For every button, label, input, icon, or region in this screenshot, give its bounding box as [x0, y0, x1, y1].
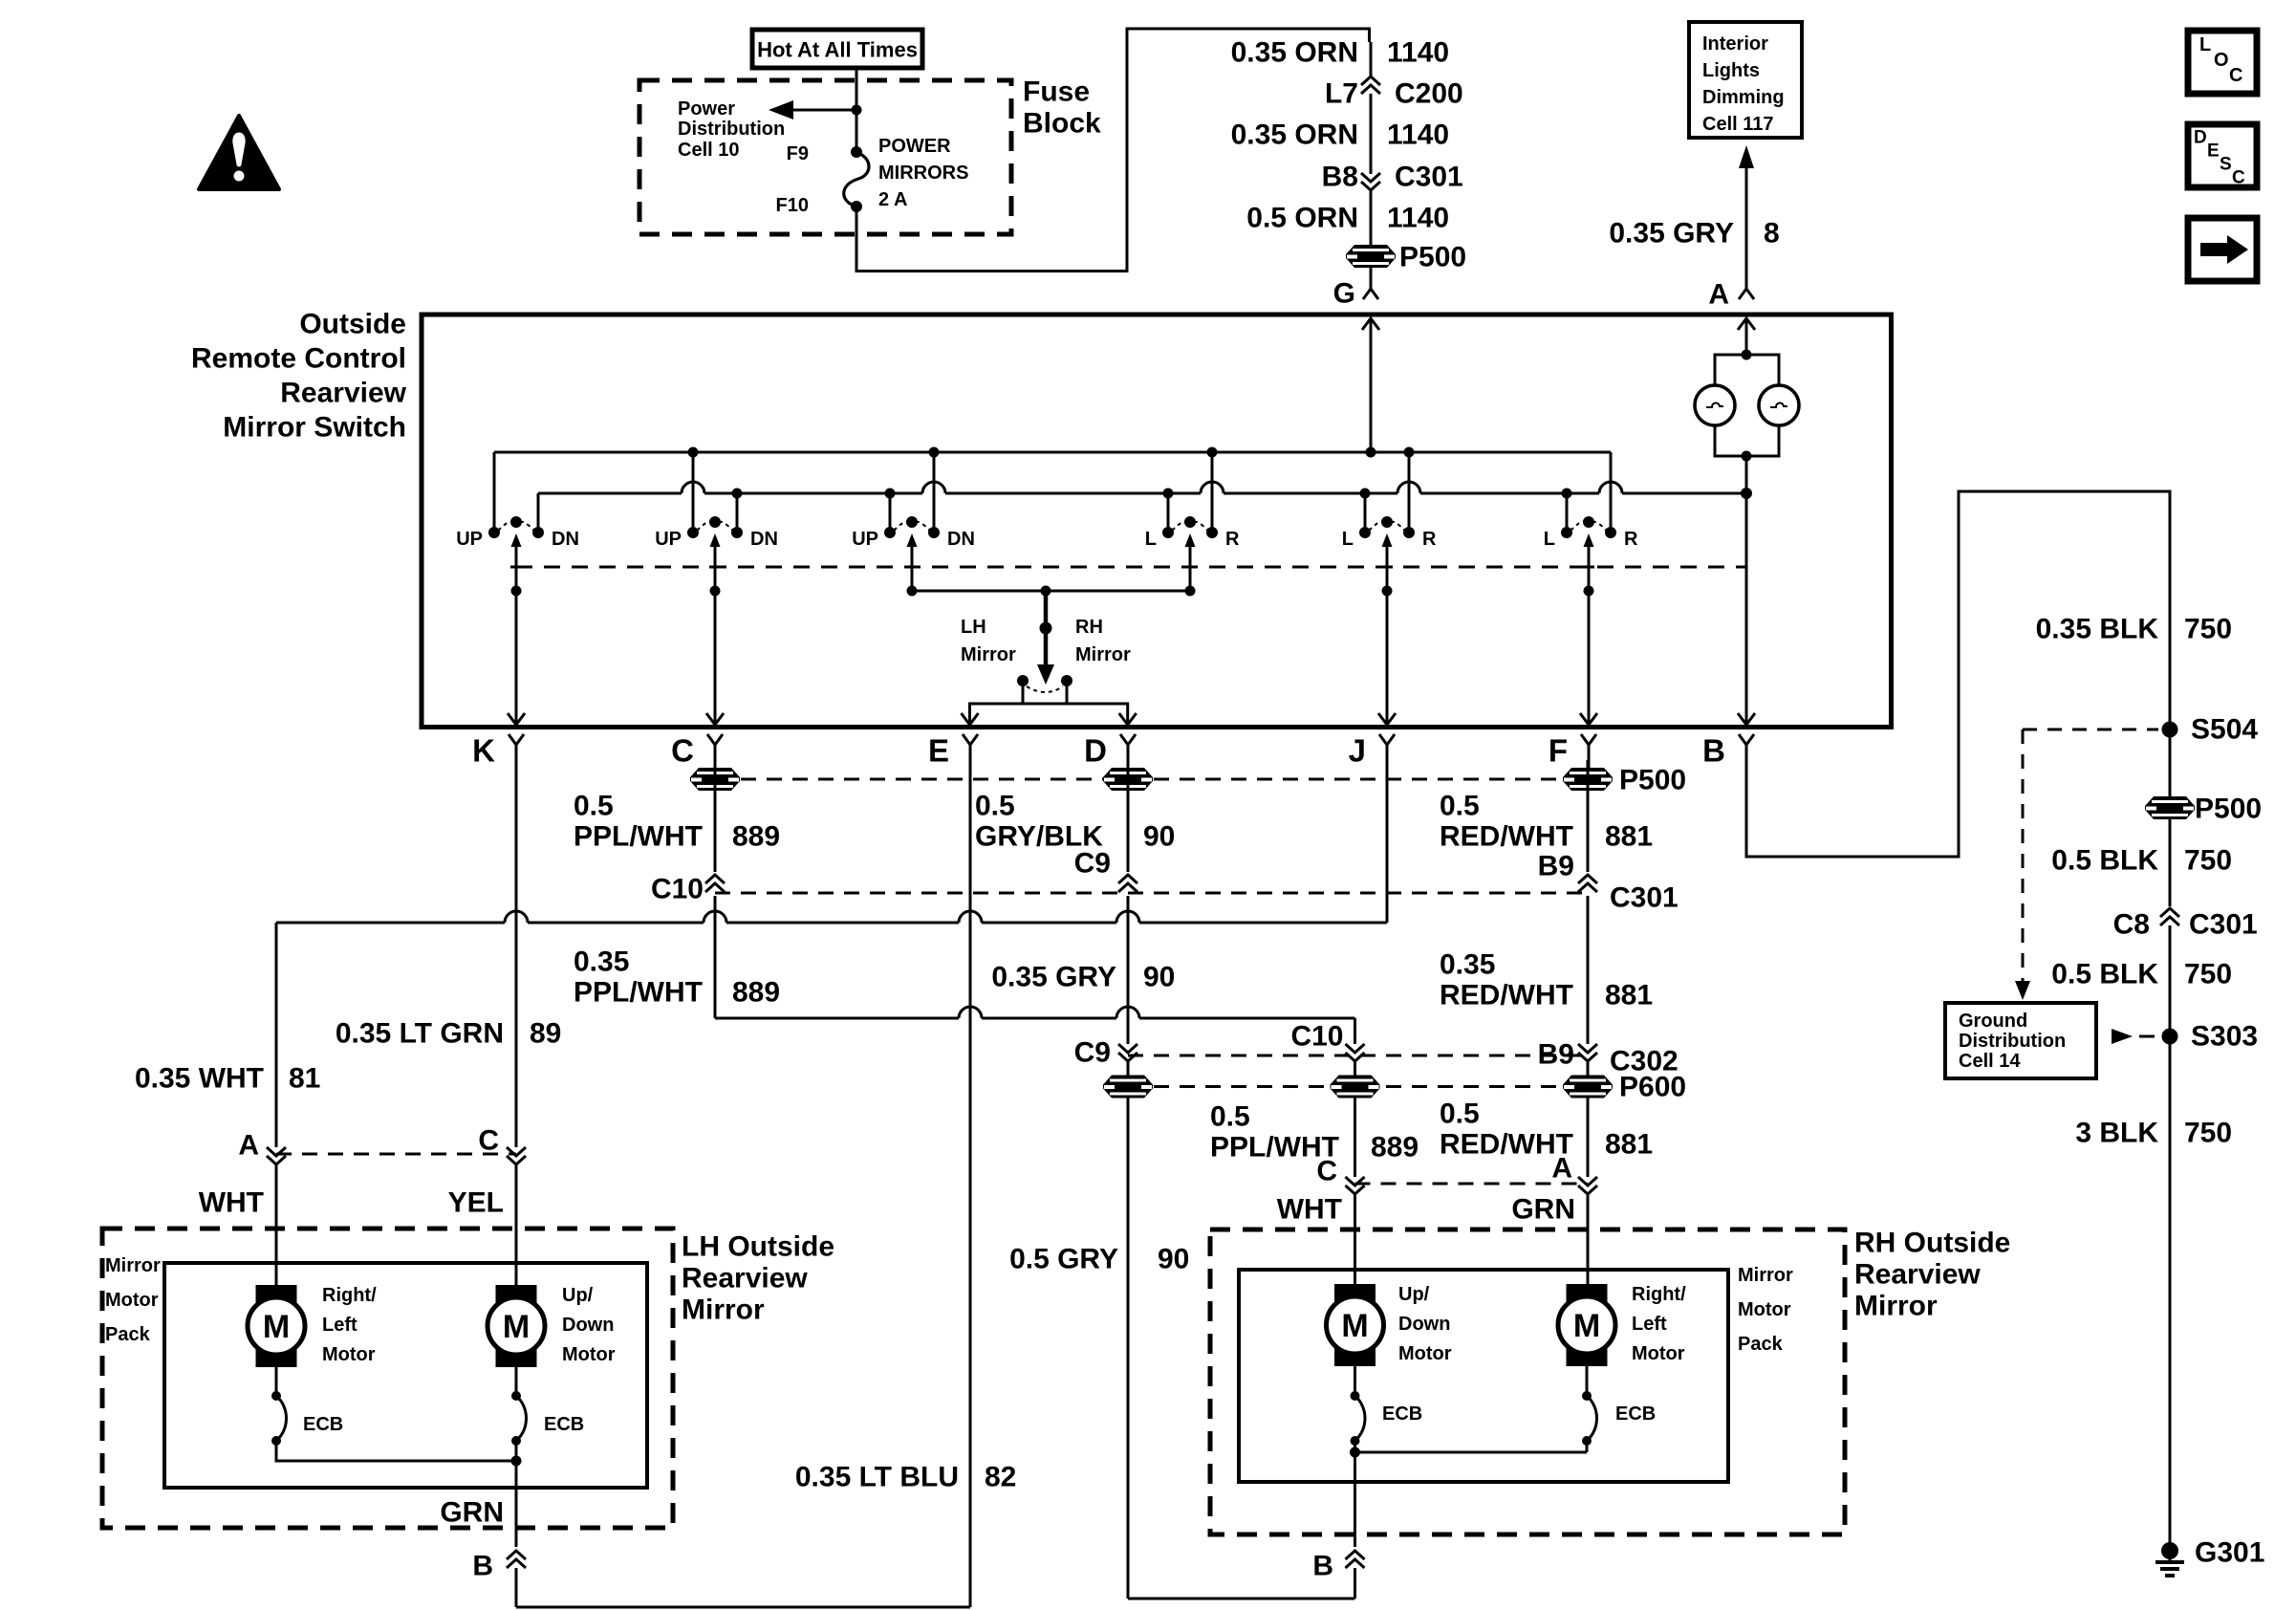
svg-text:POWER: POWER	[878, 136, 951, 157]
wire fuse output to ORN column	[856, 29, 1370, 272]
svg-text:Rearview: Rearview	[1854, 1259, 1981, 1291]
svg-text:B8: B8	[1322, 162, 1358, 193]
svg-text:Ground: Ground	[1959, 1011, 2027, 1032]
svg-text:S303: S303	[2191, 1021, 2258, 1053]
svg-text:M: M	[503, 1309, 530, 1345]
label C10	[651, 874, 704, 905]
svg-text:C200: C200	[1395, 78, 1463, 110]
RH ECB up/down	[1351, 1366, 1366, 1446]
bus B (lower supply rail)	[538, 482, 1746, 493]
label 0.5 GRY/BLK 90	[975, 791, 1175, 853]
label Up/Down Motor (LH)	[562, 1285, 616, 1365]
grommet P600 on GRY wire	[1103, 1076, 1153, 1099]
label 0.5 ORN 1140	[1246, 203, 1449, 234]
grommet P600 on RED/WHT wire	[1563, 1076, 1613, 1099]
svg-text:Right/: Right/	[1632, 1284, 1686, 1305]
pin D connector symbol	[1084, 733, 1136, 772]
svg-text:UP: UP	[456, 529, 483, 550]
svg-text:D: D	[1084, 733, 1107, 769]
selector output bar to pins E and D	[970, 704, 1128, 725]
label C301	[1610, 882, 1679, 914]
pin B wire in box	[1738, 493, 1755, 725]
svg-text:B: B	[1312, 1551, 1333, 1582]
svg-text:Right/: Right/	[322, 1285, 377, 1306]
svg-text:889: 889	[732, 821, 780, 853]
label WHT (RH)	[1277, 1194, 1342, 1226]
RH ECB right/left	[1582, 1366, 1597, 1446]
pin G entry arrow + wire to bus A	[1362, 318, 1379, 458]
label 0.5 BLK 750 (1)	[2051, 845, 2232, 877]
svg-text:C: C	[2232, 168, 2245, 188]
svg-text:Down: Down	[562, 1315, 614, 1336]
svg-text:750: 750	[2184, 1118, 2232, 1149]
wire LT GRN pin K column	[515, 771, 518, 1147]
wire C301 to S303	[2169, 925, 2172, 1036]
label RH pin A	[1551, 1153, 1572, 1185]
svg-text:LH Outside: LH Outside	[682, 1231, 834, 1263]
svg-text:881: 881	[1605, 821, 1653, 853]
svg-text:A: A	[1708, 279, 1729, 311]
label 0.35 RED/WHT 881	[1440, 949, 1653, 1012]
label ECB (LH2)	[544, 1414, 584, 1435]
label B8 C301	[1322, 162, 1463, 193]
svg-text:C: C	[1316, 1156, 1337, 1187]
wire pin J down to run	[1386, 771, 1389, 923]
wire GRY bottom run	[1128, 1598, 1355, 1600]
svg-text:Up/: Up/	[1398, 1284, 1430, 1305]
svg-text:ECB: ECB	[1382, 1403, 1422, 1425]
svg-text:Mirror: Mirror	[682, 1295, 765, 1326]
svg-text:90: 90	[1158, 1244, 1189, 1275]
label Power Distribution Cell 10	[678, 98, 785, 161]
svg-text:YEL: YEL	[448, 1187, 504, 1219]
label 0.5 GRY 90	[1009, 1244, 1189, 1275]
pin F wire in box	[1580, 591, 1597, 725]
svg-text:Cell 10: Cell 10	[678, 140, 739, 161]
label pin G	[1333, 278, 1355, 310]
RH up/down motor	[1327, 1284, 1384, 1366]
svg-text:F9: F9	[787, 143, 809, 164]
wire 0.35 ORN 1140 middle segment	[1370, 94, 1373, 174]
svg-text:82: 82	[985, 1462, 1016, 1493]
svg-text:Rearview: Rearview	[682, 1263, 808, 1295]
svg-text:0.35 ORN: 0.35 ORN	[1231, 37, 1358, 69]
pin K connector symbol	[472, 733, 524, 772]
svg-text:ECB: ECB	[544, 1414, 584, 1435]
label RH Mirror	[1075, 617, 1131, 665]
svg-text:Distribution: Distribution	[678, 119, 785, 140]
svg-text:C301: C301	[1610, 882, 1679, 914]
svg-text:E: E	[928, 733, 949, 769]
svg-text:C301: C301	[1395, 162, 1463, 193]
svg-text:M: M	[263, 1309, 290, 1345]
svg-text:Distribution: Distribution	[1959, 1031, 2066, 1052]
svg-text:750: 750	[2184, 614, 2232, 645]
label 0.35 PPL/WHT 889	[574, 946, 780, 1009]
wire out of RH mirror	[1354, 1452, 1356, 1547]
label 0.35 GRY 8	[1609, 218, 1779, 250]
wire S303 to G301	[2169, 1036, 2172, 1543]
Interior Lights Dimming Cell 117 box	[1689, 22, 1802, 138]
arrow to Power Distribution	[769, 100, 856, 120]
pin B connector symbol	[1702, 733, 1754, 772]
svg-text:1140: 1140	[1387, 120, 1449, 151]
selector contacts	[1017, 675, 1072, 692]
svg-text:881: 881	[1605, 980, 1653, 1012]
pin A symbol	[1739, 289, 1754, 299]
svg-text:C: C	[478, 1125, 499, 1157]
svg-text:RH: RH	[1075, 617, 1103, 638]
wire YEL into LH mirror	[515, 1164, 518, 1285]
label WHT (LH)	[199, 1187, 264, 1219]
wire S504 to P500	[2169, 729, 2172, 798]
pin C wire in box	[706, 591, 724, 725]
svg-text:P500: P500	[1619, 765, 1686, 796]
label F9	[787, 143, 809, 164]
svg-text:Left: Left	[322, 1315, 357, 1336]
fuse block dashed box	[639, 80, 1011, 234]
ground G301	[2155, 1542, 2184, 1576]
wire LT BLU bottom run	[516, 771, 970, 1607]
svg-text:L7: L7	[1325, 78, 1358, 110]
label ECB (LH1)	[303, 1414, 343, 1435]
grommet P500 on pin D wire	[1103, 768, 1153, 791]
switch 2 up/down (pin C)	[655, 447, 778, 597]
svg-text:M: M	[1341, 1308, 1368, 1344]
svg-text:ECB: ECB	[1615, 1403, 1656, 1425]
svg-text:Motor: Motor	[1632, 1343, 1685, 1364]
label RH pin C	[1316, 1156, 1337, 1187]
selector wire down	[1040, 591, 1052, 667]
svg-text:Mirror: Mirror	[1738, 1265, 1793, 1286]
dashed line connector P500 row	[715, 778, 1588, 781]
svg-text:B: B	[1702, 733, 1725, 769]
switch 3 up/down (pin E)	[852, 447, 975, 597]
selector contact stubs	[1023, 681, 1067, 704]
svg-text:WHT: WHT	[199, 1187, 264, 1219]
svg-text:C9: C9	[1074, 1037, 1111, 1069]
splice S303	[2162, 1029, 2178, 1045]
svg-text:UP: UP	[655, 529, 682, 550]
svg-text:Mirror: Mirror	[105, 1255, 161, 1276]
LH ECB right/left	[271, 1367, 287, 1446]
svg-text:PPL/WHT: PPL/WHT	[574, 977, 703, 1009]
selector feed bar	[912, 586, 1191, 597]
svg-text:B9: B9	[1538, 1039, 1574, 1071]
svg-text:C301: C301	[2189, 909, 2258, 941]
svg-text:0.35 ORN: 0.35 ORN	[1231, 120, 1358, 151]
svg-text:A: A	[238, 1130, 259, 1162]
RH outside rearview mirror dashed box	[1210, 1229, 1845, 1534]
junction dots lamp feed	[1742, 350, 1752, 462]
pin F connector symbol	[1549, 733, 1596, 772]
lamp left	[1695, 385, 1735, 425]
wire 81 horizontal run (pin J to LH mirror)	[276, 911, 1387, 923]
wire WHT into RH mirror	[1354, 1194, 1356, 1284]
LH up/down motor	[487, 1285, 545, 1367]
LOC legend box	[2188, 31, 2257, 94]
switch 5 left/right (pin J)	[1342, 447, 1437, 597]
LH pin A chevrons	[267, 1147, 286, 1164]
label ECB (RH2)	[1615, 1403, 1656, 1425]
svg-text:Rearview: Rearview	[280, 378, 406, 409]
svg-text:0.5: 0.5	[1440, 1099, 1480, 1130]
svg-text:Cell 117: Cell 117	[1702, 114, 1774, 135]
svg-text:O: O	[2214, 50, 2229, 71]
junction dot feed	[852, 105, 862, 116]
svg-text:750: 750	[2184, 959, 2232, 990]
connector C302 pin C9 chevrons	[1118, 1044, 1137, 1061]
svg-text:R: R	[1225, 529, 1240, 550]
svg-text:Remote Control: Remote Control	[191, 343, 406, 375]
svg-text:90: 90	[1143, 962, 1175, 993]
bus A (upper supply rail)	[494, 451, 1611, 454]
svg-text:R: R	[1422, 529, 1437, 550]
label LH pin B	[472, 1551, 493, 1582]
svg-text:GRN: GRN	[1511, 1194, 1575, 1226]
wire pin D down to C9 lower	[1127, 896, 1130, 1044]
svg-text:0.5 ORN: 0.5 ORN	[1246, 203, 1358, 234]
svg-text:Pack: Pack	[105, 1324, 151, 1345]
wire GRN out of LH mirror	[515, 1461, 518, 1547]
svg-text:0.35 WHT: 0.35 WHT	[135, 1063, 264, 1095]
wire pin B to BLK column	[1746, 491, 2170, 857]
RH common wire	[1350, 1441, 1587, 1458]
label pin A (top)	[1708, 279, 1729, 311]
label RH pin B	[1312, 1551, 1333, 1582]
wire RED/WHT to RH pin A	[1587, 1098, 1590, 1177]
svg-text:90: 90	[1143, 821, 1175, 853]
svg-text:C: C	[671, 733, 694, 769]
label C10 (lower)	[1290, 1021, 1343, 1053]
Hot At All Times box	[752, 30, 922, 68]
svg-text:Motor: Motor	[562, 1344, 616, 1365]
RH pin C chevrons	[1346, 1177, 1365, 1194]
svg-text:R: R	[1624, 529, 1638, 550]
fuse F9/F10 POWER MIRRORS 2A	[844, 146, 869, 212]
LH mirror pins dashed line	[276, 1153, 516, 1156]
svg-text:Mirror: Mirror	[1075, 644, 1131, 665]
LH common wire	[276, 1441, 522, 1467]
svg-text:M: M	[1573, 1308, 1600, 1344]
svg-text:0.35 LT GRN: 0.35 LT GRN	[336, 1018, 504, 1050]
switch 6 left/right (pin F)	[1544, 452, 1638, 597]
label C8 C301	[2113, 909, 2258, 941]
svg-text:Motor: Motor	[1398, 1343, 1452, 1364]
label P500 (row)	[1619, 765, 1686, 796]
dashed line connector P600 row	[1128, 1085, 1588, 1088]
label LH pin C	[478, 1125, 499, 1157]
label 0.5 RED/WHT 881 (upper)	[1440, 791, 1653, 853]
wire P500 to C301	[2169, 819, 2172, 906]
wire 889 horizontal run (C to RH mirror C10)	[715, 1007, 1355, 1018]
label C9 (lower)	[1074, 1037, 1111, 1069]
dashed branch S504 to ground cell	[2015, 729, 2158, 1000]
svg-text:Lights: Lights	[1702, 60, 1760, 81]
label 0.35 ORN 1140 (2)	[1231, 120, 1449, 151]
connector C301 pin C10 chevrons	[705, 875, 725, 892]
svg-text:Fuse: Fuse	[1023, 76, 1090, 108]
connector C301 pin B8 chevrons	[1361, 173, 1380, 190]
svg-text:1140: 1140	[1387, 203, 1449, 234]
RH right/left motor	[1558, 1284, 1615, 1366]
switch 4 left/right (pin D)	[1145, 447, 1240, 597]
label 0.5 RED/WHT 881 (lower)	[1440, 1099, 1653, 1161]
wire 0.35 GRY 8	[1745, 168, 1748, 289]
svg-text:B9: B9	[1538, 851, 1574, 882]
switch 1 LH up/down (pin K)	[456, 452, 579, 597]
svg-text:ECB: ECB	[303, 1414, 343, 1435]
svg-text:S504: S504	[2191, 714, 2258, 746]
svg-text:G: G	[1333, 278, 1355, 310]
label POWER MIRRORS 2A	[878, 136, 968, 210]
svg-text:8: 8	[1764, 218, 1780, 250]
wire 0.5 ORN 1140 segment	[1370, 190, 1373, 245]
RH mirror pins dashed line	[1355, 1183, 1589, 1186]
connector C302 pin C10 chevrons	[1346, 1044, 1365, 1061]
pin J connector symbol	[1349, 733, 1395, 772]
label Mirror Motor Pack (RH)	[1738, 1265, 1793, 1355]
svg-text:0.35 BLK: 0.35 BLK	[2036, 614, 2159, 645]
svg-text:Motor: Motor	[322, 1344, 376, 1365]
svg-text:RED/WHT: RED/WHT	[1440, 980, 1573, 1012]
label P500 (right)	[2195, 794, 2262, 825]
grommet P500 on pin C wire	[690, 768, 740, 791]
svg-text:Motor: Motor	[105, 1290, 159, 1311]
label LH Outside Rearview Mirror	[682, 1231, 834, 1326]
LH outside rearview mirror dashed box	[102, 1229, 673, 1528]
pin C connector symbol	[671, 733, 723, 772]
wire down to RH C10 chevrons	[1354, 1018, 1356, 1044]
svg-text:C9: C9	[1074, 848, 1111, 880]
RH pin B chevrons	[1346, 1551, 1365, 1599]
connector C301 pin C8 chevrons	[2160, 908, 2179, 925]
svg-text:L: L	[2199, 34, 2211, 55]
svg-text:L: L	[1342, 529, 1354, 550]
svg-text:B: B	[472, 1551, 493, 1582]
grommet P500 on ORN wire	[1346, 245, 1396, 268]
label 0.5 PPL/WHT 889 (lower)	[1210, 1101, 1419, 1164]
svg-text:Power: Power	[678, 98, 735, 120]
svg-text:A: A	[1551, 1153, 1572, 1185]
label 0.5 PPL/WHT 889	[574, 791, 780, 853]
pin D in-box arrow	[1119, 713, 1137, 725]
svg-text:PPL/WHT: PPL/WHT	[574, 821, 703, 853]
grommet P500 on BLK wire	[2145, 796, 2195, 819]
label LH Mirror	[961, 617, 1016, 665]
wire WHT to LH pin A	[275, 923, 278, 1147]
label Up/Down Motor (RH)	[1398, 1284, 1452, 1364]
arrow ground cell to S303	[2112, 1029, 2155, 1044]
label 3 BLK 750	[2075, 1118, 2232, 1149]
connector C301 pin B9 chevrons	[1578, 875, 1597, 892]
wire GRY down left of RH box	[1127, 1098, 1130, 1599]
label L7 C200	[1325, 78, 1463, 110]
wire pin C to C10	[714, 760, 717, 872]
Outside Remote Control Rearview Mirror Switch box	[422, 315, 1892, 728]
label Mirror Motor Pack (LH)	[105, 1255, 161, 1345]
svg-text:889: 889	[732, 977, 780, 1009]
wire pin F down to B9 lower	[1587, 896, 1590, 1044]
svg-text:F10: F10	[776, 195, 809, 216]
svg-text:2 A: 2 A	[878, 189, 907, 210]
connector C301 dashed line	[715, 892, 1588, 895]
wire PPL/WHT to RH pin C	[1354, 1098, 1356, 1177]
pin E in-box arrow	[962, 713, 979, 725]
label YEL (LH)	[448, 1187, 504, 1219]
label Right/Left Motor (LH)	[322, 1285, 377, 1365]
grommet P500 on pin F wire	[1563, 768, 1613, 791]
svg-text:0.35 LT BLU: 0.35 LT BLU	[795, 1462, 959, 1493]
LH pin C chevrons	[507, 1147, 526, 1164]
svg-text:WHT: WHT	[1277, 1194, 1342, 1226]
LH ECB up/down	[511, 1367, 527, 1446]
label Fuse Block	[1023, 76, 1101, 140]
svg-text:F: F	[1549, 733, 1568, 769]
arrow into interior lights box	[1739, 145, 1754, 168]
svg-text:3 BLK: 3 BLK	[2075, 1118, 2158, 1149]
svg-text:750: 750	[2184, 845, 2232, 877]
Ground Distribution Cell 14 box	[1945, 1003, 2096, 1078]
label GRN (RH)	[1511, 1194, 1575, 1226]
svg-text:DN: DN	[552, 529, 579, 550]
svg-text:L: L	[1145, 529, 1157, 550]
label GRN (LH)	[440, 1497, 504, 1529]
svg-text:DN: DN	[750, 529, 778, 550]
label 0.35 BLK 750	[2036, 614, 2232, 645]
svg-text:1140: 1140	[1387, 37, 1449, 69]
svg-text:C10: C10	[651, 874, 704, 905]
splice S504	[2162, 722, 2178, 738]
svg-text:0.35 GRY: 0.35 GRY	[991, 962, 1116, 993]
label 0.35 GRY 90	[991, 962, 1175, 993]
LH pin B chevrons	[507, 1551, 526, 1607]
svg-text:C: C	[2229, 65, 2242, 86]
svg-text:0.5 BLK: 0.5 BLK	[2051, 845, 2158, 877]
svg-text:0.35 GRY: 0.35 GRY	[1609, 218, 1734, 250]
label 0.35 LT GRN 89	[336, 1018, 562, 1050]
svg-text:Left: Left	[1632, 1314, 1667, 1335]
pin K wire in box	[508, 591, 525, 725]
svg-text:Hot At All Times: Hot At All Times	[757, 38, 918, 62]
svg-text:Down: Down	[1398, 1314, 1450, 1335]
svg-text:81: 81	[289, 1063, 320, 1095]
svg-text:0.5: 0.5	[1210, 1101, 1250, 1133]
svg-text:RH Outside: RH Outside	[1854, 1228, 2010, 1259]
svg-text:0.35: 0.35	[574, 946, 629, 978]
svg-text:Block: Block	[1023, 108, 1101, 140]
svg-text:Motor: Motor	[1738, 1299, 1791, 1320]
svg-text:P600: P600	[1619, 1072, 1686, 1103]
wire lamps to bus B	[1741, 456, 1752, 499]
svg-text:K: K	[472, 733, 495, 769]
DESC legend box	[2188, 124, 2257, 188]
svg-text:P500: P500	[2195, 794, 2262, 825]
svg-text:Mirror: Mirror	[961, 644, 1016, 665]
svg-text:E: E	[2207, 141, 2220, 162]
label 0.35 LT BLU 82	[795, 1462, 1017, 1493]
svg-text:MIRRORS: MIRRORS	[878, 163, 968, 184]
label 0.35 ORN 1140 (1)	[1231, 37, 1449, 69]
svg-text:Mirror: Mirror	[1854, 1291, 1938, 1322]
label Outside Remote Control Rearview Mirror Switch	[191, 309, 407, 444]
svg-text:Mirror Switch: Mirror Switch	[223, 412, 406, 444]
connector C302 dashed line	[1128, 1055, 1588, 1057]
svg-text:D: D	[2194, 128, 2207, 148]
svg-text:0.5: 0.5	[574, 791, 614, 822]
svg-text:881: 881	[1605, 1129, 1653, 1161]
wire 0.35 ORN 1140 upper segment	[1370, 42, 1373, 78]
